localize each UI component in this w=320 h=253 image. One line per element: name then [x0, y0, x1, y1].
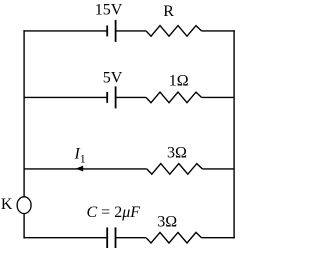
svg-text:C = 2μF: C = 2μF — [87, 204, 141, 221]
wire left vertical (top section, node A) — [23, 30, 25, 197]
svg-text:R: R — [163, 3, 174, 20]
svg-text:K: K — [1, 196, 13, 213]
svg-text:1Ω: 1Ω — [169, 72, 189, 89]
resistor R2 1ohm — [146, 92, 202, 103]
wire row2 left — [24, 96, 107, 98]
wire left vertical (bottom section) — [23, 214, 25, 239]
svg-text:15V: 15V — [95, 2, 123, 19]
resistor R — [146, 26, 202, 37]
svg-text:3Ω: 3Ω — [157, 214, 177, 231]
switch K (circle) — [17, 197, 31, 214]
battery B2 5V — [107, 86, 115, 108]
wire row2 right — [202, 96, 235, 98]
wire row1 right — [202, 30, 235, 32]
wire row1 middle — [116, 30, 146, 32]
svg-text:5V: 5V — [103, 69, 123, 86]
wire row3 right — [202, 168, 234, 170]
current arrow I1 head — [76, 166, 84, 172]
wire row4 middle — [116, 237, 147, 239]
wire row3 left with current direction — [24, 168, 147, 170]
svg-text:3Ω: 3Ω — [167, 144, 187, 161]
capacitor C1 2uF — [107, 227, 115, 248]
wire row4 left — [23, 237, 107, 239]
resistor R3 3ohm — [147, 164, 203, 175]
resistor R4 3ohm bottom — [146, 232, 202, 243]
wire row2 middle — [116, 96, 146, 98]
wire row1 left — [23, 30, 107, 32]
wire right vertical — [233, 30, 235, 238]
battery B1 15V — [107, 20, 115, 42]
wire row4 right — [202, 237, 235, 239]
